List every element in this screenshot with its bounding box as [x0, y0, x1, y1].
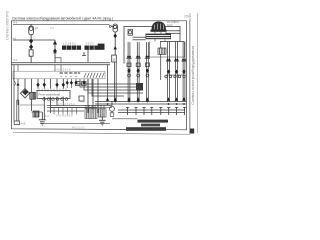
svg-text:Схемы электрооборудования: Схемы электрооборудования — [191, 46, 195, 105]
svg-text:СХЕМЫ ЭЛЕКТРО: СХЕМЫ ЭЛЕКТРО — [6, 10, 10, 40]
svg-text:269: 269 — [184, 15, 190, 19]
svg-text:А-3: А-3 — [80, 100, 85, 104]
svg-text:4-6: 4-6 — [50, 27, 54, 30]
svg-text:1-4 2-1 3-6 1-8: 1-4 2-1 3-6 1-8 — [54, 68, 71, 71]
svg-text:3P: 3P — [35, 27, 39, 31]
svg-text:4-6 2-1 0-3: 4-6 2-1 0-3 — [72, 127, 85, 130]
svg-text:2-4 1-6 3-8 5-2: 2-4 1-6 3-8 5-2 — [56, 115, 73, 118]
svg-text:Система электрооборудования ав: Система электрооборудования автомобилей … — [12, 17, 113, 21]
svg-text:Реле указателей: Реле указателей — [39, 93, 61, 97]
svg-text:ЗАЖ: ЗАЖ — [167, 23, 173, 27]
svg-text:2-6 4-1 3-2 6-4: 2-6 4-1 3-2 6-4 — [58, 103, 75, 106]
svg-text:2-3 3-1: 2-3 3-1 — [86, 42, 95, 46]
svg-text:, . , . ,: , . , . , — [16, 76, 23, 79]
svg-text:1-2 1-4 2-1: 1-2 1-4 2-1 — [63, 42, 76, 46]
svg-text:4-6: 4-6 — [13, 58, 18, 62]
svg-text:А-3: А-3 — [45, 114, 50, 118]
svg-text:11: 11 — [112, 58, 115, 62]
svg-text:АКБ: АКБ — [21, 121, 26, 125]
